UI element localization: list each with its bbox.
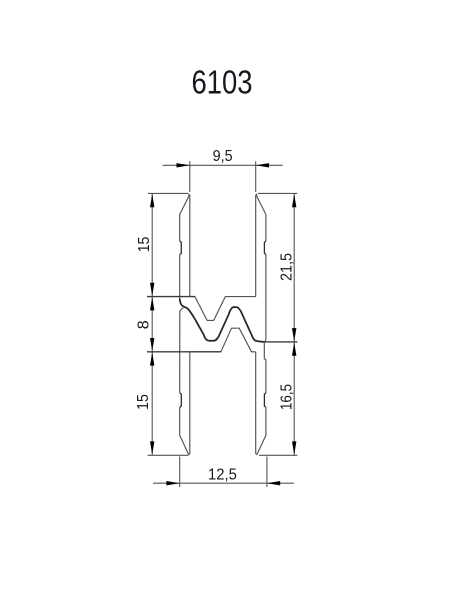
svg-text:15: 15 <box>136 237 153 253</box>
svg-text:21,5: 21,5 <box>278 253 295 281</box>
arrow 12,5 left <box>166 481 179 485</box>
extension line bottom edge left <box>148 454 189 456</box>
extension line top edge right <box>258 192 297 194</box>
arrow 21,5 down <box>292 328 296 341</box>
serration notch bottom-right outer wall <box>264 393 266 407</box>
profile top-right outer wall lower part <box>265 255 267 326</box>
profile top-left flange inner wall <box>189 195 191 297</box>
extension line top edge left <box>148 192 188 194</box>
svg-text:16,5: 16,5 <box>278 384 295 410</box>
arrow 12,5 right <box>267 481 280 485</box>
extension line bottom edge right <box>259 454 297 456</box>
profile bottom-right outer wall lower with tip chamfer <box>256 407 266 454</box>
profile bottom-left outer wall lower with tip chamfer <box>180 407 190 454</box>
profile top-left flange outer wall with tip chamfer <box>180 194 189 241</box>
dimension line right column <box>293 193 295 455</box>
dimension line 9,5 <box>163 164 283 166</box>
profile top channel floor with V dip <box>190 297 256 321</box>
arrow 21,5 up <box>292 194 296 207</box>
arrow 16,5 down <box>292 441 296 454</box>
profile top-left outer wall lower part <box>179 255 181 300</box>
arrow 9,5 left <box>177 163 190 167</box>
profile bottom-left flange inner wall <box>189 352 191 454</box>
svg-text:15: 15 <box>135 394 152 410</box>
extension line 9,5 right <box>255 161 257 192</box>
profile top-right flange outer wall with tip chamfer <box>257 194 266 241</box>
serration notch top-left outer wall <box>180 241 182 254</box>
profile top-right flange inner wall <box>255 195 257 297</box>
dimension line 12,5 <box>153 482 294 484</box>
arrow 9,5 right <box>256 163 269 167</box>
svg-text:8: 8 <box>136 320 153 329</box>
extension line 12,5 left <box>179 457 181 488</box>
arrow 16,5 up <box>292 342 296 355</box>
arrow 15 bottom down <box>150 441 154 454</box>
arrow 8 down <box>150 338 154 351</box>
svg-text:6103: 6103 <box>192 64 253 101</box>
extension line 9,5 left <box>189 161 191 192</box>
profile right wall segment above junction <box>265 325 266 342</box>
extension line web junction right <box>264 341 298 343</box>
profile bottom-right outer wall upper <box>264 342 266 393</box>
extension line floor level left <box>147 296 195 298</box>
profile bottom channel ceiling with trapezoid bump <box>190 328 256 352</box>
W-shaped spring web <box>180 299 264 342</box>
extension line ceiling level left <box>147 351 221 353</box>
svg-text:12,5: 12,5 <box>208 467 237 484</box>
arrow 15 top up <box>150 194 154 207</box>
serration notch bottom-left outer wall <box>180 393 182 407</box>
profile bottom-right flange inner wall <box>255 352 257 454</box>
dimension line left column <box>151 193 153 455</box>
svg-text:9,5: 9,5 <box>213 148 233 165</box>
serration notch top-right outer wall <box>264 241 266 254</box>
arrow 15 bottom up <box>150 352 154 365</box>
extension line 12,5 right <box>266 457 268 488</box>
arrow 8 up <box>150 297 154 310</box>
profile bottom-left outer wall with hump merge <box>180 308 184 393</box>
arrow 15 top down <box>150 283 154 296</box>
